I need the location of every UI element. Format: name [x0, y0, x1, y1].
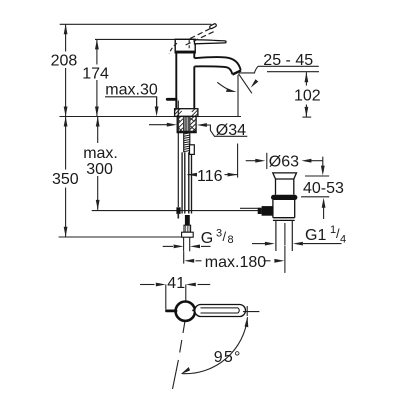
- svg-text:350: 350: [52, 171, 79, 188]
- escutcheon flange: [175, 109, 198, 117]
- dimension G1 1/4: [252, 243, 342, 245]
- svg-text:40-53: 40-53: [303, 180, 344, 197]
- raised handle tip: [209, 23, 217, 29]
- shank seen through nut: [185, 117, 188, 132]
- svg-text:41: 41: [167, 275, 185, 292]
- pop-up rod horizontal line: [92, 210, 262, 212]
- dimension 174 arrows: [95, 39, 99, 116]
- svg-text:300: 300: [86, 161, 113, 178]
- svg-text:95°: 95°: [214, 349, 242, 366]
- rod pivot block: [176, 207, 180, 214]
- pop-up rod second line near drain: [240, 207, 261, 209]
- spout: [194, 57, 240, 74]
- G3/8 threaded tail: [184, 237, 190, 251]
- dimension 208 arrows: [64, 24, 68, 116]
- hose end dark cylinder: [185, 215, 190, 225]
- stream angle arrowhead right: [251, 79, 259, 87]
- dimension 174 line: [96, 39, 98, 116]
- hose fitting block: [190, 145, 195, 155]
- drain centerline: [284, 223, 286, 245]
- connector nut: [182, 232, 194, 237]
- rod stub below pivot: [177, 214, 179, 219]
- Ø34 left arrow: [149, 124, 168, 126]
- drain body: [273, 200, 295, 220]
- pull rod knob: [167, 98, 176, 101]
- lever handle (closed position): [195, 40, 227, 44]
- top view body circle: [176, 302, 195, 321]
- cartridge box: [175, 39, 195, 53]
- svg-text:max.180: max.180: [205, 254, 266, 271]
- svg-text:G1: G1: [305, 227, 326, 244]
- angle reference line and tick: [243, 306, 259, 316]
- dimension max.180: [184, 246, 285, 273]
- aerator reference line: [267, 71, 319, 73]
- dashed lever inside box: [188, 40, 190, 50]
- shank threads: [184, 133, 190, 152]
- dimension 208 line: [65, 24, 67, 116]
- dimension 350 line: [65, 117, 67, 237]
- drain o-ring: [271, 195, 297, 200]
- top view lever inner lines: [201, 308, 240, 313]
- dashed swing arc left of box: [169, 43, 177, 54]
- dimension max300 line: [97, 117, 99, 210]
- top reference line (208 max height): [60, 23, 212, 25]
- dimension 40-53: [301, 176, 329, 219]
- dimension 350 arrows: [64, 117, 68, 237]
- svg-text:116: 116: [197, 168, 223, 185]
- svg-text:174: 174: [82, 66, 109, 83]
- svg-text:8: 8: [228, 234, 234, 246]
- knurled ring: [184, 225, 191, 232]
- mounting nut: [177, 116, 196, 132]
- stream angle arc arrow left: [217, 82, 231, 91]
- drain tailpipe: [276, 220, 292, 251]
- top view lever: [195, 305, 246, 317]
- top view knob stub: [167, 309, 177, 312]
- svg-text:208: 208: [51, 53, 78, 70]
- dimension G3/8: [163, 245, 211, 247]
- dimension 102: [302, 72, 311, 117]
- top view lever dot: [192, 309, 194, 311]
- svg-text:4: 4: [340, 234, 346, 246]
- pull rod: [177, 101, 179, 208]
- rod ball housing: [262, 206, 273, 216]
- tilted stream diagonal: [238, 74, 252, 94]
- water stream line: [238, 74, 252, 117]
- open position dashed line: [173, 322, 185, 389]
- 95 degree arc: [182, 317, 248, 373]
- svg-text:/: /: [223, 229, 227, 244]
- flange hatch: [175, 109, 198, 117]
- nut hatch: [177, 116, 196, 132]
- drain funnel: [273, 173, 297, 195]
- dimension max300 arrows: [96, 117, 100, 210]
- dashed raised handle outline: [185, 29, 214, 46]
- faucet body: [176, 53, 194, 109]
- supply hoses: [182, 152, 191, 213]
- lever-top reference line (174): [95, 38, 195, 40]
- dimension Ø63: [246, 153, 323, 169]
- svg-text:max.30: max.30: [105, 82, 158, 99]
- dimension 41: [140, 285, 210, 310]
- svg-text:G: G: [201, 230, 213, 247]
- svg-text:max.: max.: [83, 145, 118, 162]
- svg-text:Ø63: Ø63: [269, 154, 299, 171]
- spout outlet face: [232, 70, 241, 74]
- deck / mounting surface line: [60, 116, 242, 118]
- threaded shank: [184, 116, 190, 152]
- svg-text:102: 102: [294, 88, 321, 105]
- bottom reference line (350): [59, 236, 182, 238]
- dimension 116: [188, 144, 238, 178]
- svg-text:3: 3: [216, 228, 222, 240]
